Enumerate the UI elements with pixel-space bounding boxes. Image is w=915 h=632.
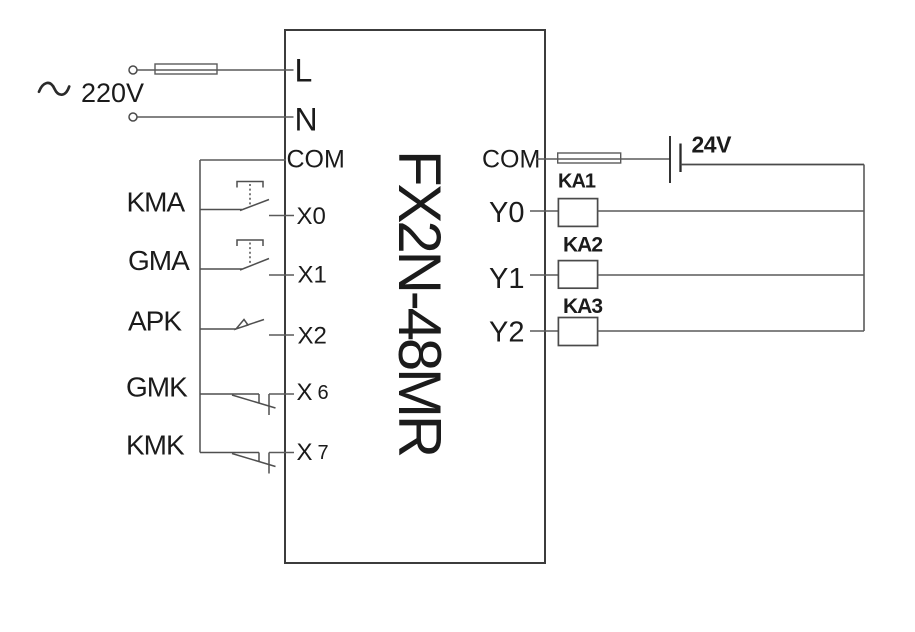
wire COM to input bus (200, 159, 286, 161)
svg-text:COM: COM (287, 146, 345, 174)
svg-text:KA3: KA3 (563, 295, 602, 318)
wire L (138, 69, 294, 71)
svg-text:KA2: KA2 (563, 234, 602, 257)
svg-text:Y1: Y1 (489, 263, 524, 295)
svg-text:L: L (295, 53, 313, 89)
switch GMK NC (200, 394, 276, 415)
svg-text:X2: X2 (298, 323, 327, 350)
wire Y0 to coil KA1 (530, 210, 558, 212)
fuse FU2 (558, 153, 621, 163)
svg-text:Y0: Y0 (489, 197, 524, 229)
right bus vertical (863, 165, 865, 332)
wire battery to right bus (681, 164, 865, 166)
svg-text:220V: 220V (81, 78, 144, 108)
switch APK limit NO (200, 320, 264, 330)
wire KA2 to bus (598, 274, 864, 276)
svg-text:KA1: KA1 (558, 171, 596, 193)
wire COM right to fuse (536, 158, 670, 160)
svg-text:KMA: KMA (127, 187, 186, 218)
AC source symbol (39, 83, 69, 95)
wire KA1 to bus (598, 210, 864, 212)
wire N (138, 116, 294, 118)
relay coil KA1 (558, 199, 597, 227)
relay coil KA2 (558, 261, 597, 289)
wire X2 (269, 334, 294, 336)
switch KMA pushbutton NO (200, 182, 269, 211)
battery 24V (669, 136, 671, 183)
wire Y1 to coil KA2 (530, 274, 558, 276)
PLC box U1 (285, 30, 545, 563)
switch KMK NC (200, 453, 276, 474)
svg-text:COM: COM (482, 146, 540, 174)
svg-text:X6: X6 (297, 379, 329, 406)
svg-text:FX2N-48MR: FX2N-48MR (386, 150, 453, 456)
wire Y2 to coil KA3 (530, 330, 558, 332)
svg-text:X7: X7 (297, 439, 329, 466)
switch GMA pushbutton NO (200, 240, 269, 270)
svg-text:X1: X1 (298, 262, 327, 289)
svg-text:Y2: Y2 (489, 317, 524, 349)
input bus vertical (199, 160, 201, 453)
svg-text:GMA: GMA (128, 245, 190, 276)
svg-text:GMK: GMK (126, 372, 188, 403)
fuse FU1 (155, 64, 217, 74)
wire X7 (269, 452, 294, 454)
svg-text:KMK: KMK (126, 430, 185, 461)
svg-text:N: N (295, 102, 318, 138)
terminal circle N (129, 113, 137, 121)
svg-text:APK: APK (128, 306, 182, 337)
terminal circle L (129, 66, 137, 74)
wire KA3 to bus (598, 330, 864, 332)
wire X1 (269, 274, 294, 276)
svg-text:X0: X0 (297, 203, 326, 230)
svg-text:24V: 24V (692, 132, 733, 158)
wire X0 (269, 215, 294, 217)
wire X6 (269, 393, 294, 395)
relay coil KA3 (558, 318, 597, 346)
